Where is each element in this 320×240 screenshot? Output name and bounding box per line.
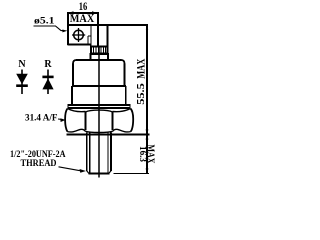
hex outer arc right (131, 109, 134, 132)
arrowheads (60, 11, 148, 173)
post inner line (90, 25, 92, 47)
knurl band (91, 47, 108, 54)
tab left edge (67, 12, 69, 45)
diode symbol N (16, 70, 28, 95)
washer right cap (129, 104, 131, 109)
stud root left (89, 133, 91, 173)
body top edge (76, 59, 122, 61)
phi leader arrowhead (62, 30, 67, 33)
stud bottom chamfer right (109, 171, 112, 174)
svg-text:MAX: MAX (70, 11, 95, 25)
vertical dimension line (55.5 / 16.3) (146, 25, 148, 174)
hole crosshair vertical (78, 28, 80, 42)
tab notch vertical (87, 36, 89, 45)
svg-text:R: R (44, 59, 52, 70)
dimension line 16 (top) (68, 12, 99, 14)
svg-text:MAX: MAX (133, 59, 147, 79)
skirt right edge (125, 86, 127, 105)
stud outer right (110, 133, 112, 171)
hex right face bottom arc (113, 129, 131, 132)
hex mid face top arc (86, 110, 113, 112)
stud bottom chamfer left (87, 171, 90, 174)
55.5 top arrow (146, 25, 148, 30)
dim16 right arrow (92, 11, 98, 14)
tab top edge and extension to dim (68, 24, 149, 26)
thread leader line (59, 167, 81, 171)
body left edge (72, 64, 74, 87)
hex outer arc left (65, 109, 67, 132)
svg-text:55.5: 55.5 (136, 83, 147, 105)
hex right face top arc (113, 109, 131, 112)
stud outer left (86, 133, 88, 171)
tab bottom edge (68, 44, 92, 46)
16.3 bottom arrow (146, 169, 149, 174)
tab right edge (97, 12, 99, 47)
body top right corner arc (121, 60, 125, 64)
stud end extension line (114, 173, 150, 175)
svg-text:THREAD: THREAD (21, 158, 57, 168)
body top left corner arc (73, 60, 77, 64)
washer lower line (68, 107, 131, 109)
svg-text:ø5.1: ø5.1 (34, 17, 55, 27)
hole crosshair horizontal (72, 34, 85, 36)
thread leader arrowhead (80, 169, 87, 173)
hex mid face bottom arc (86, 131, 113, 132)
dim16 left arrow (68, 11, 74, 14)
AF leader line (58, 118, 63, 121)
post right line (107, 25, 109, 47)
16.3 top arrow (146, 135, 149, 140)
hex inner face line left (85, 112, 87, 131)
body bottom / skirt top line (72, 85, 126, 87)
svg-text:MAX: MAX (145, 145, 156, 165)
washer upper line (68, 104, 131, 106)
phi5.1 underline (34, 26, 65, 31)
centerline (98, 47, 100, 178)
collar (91, 54, 109, 60)
seating plane line + extension to dim (67, 134, 150, 136)
svg-text:N: N (18, 59, 26, 70)
hex left face bottom arc (67, 129, 85, 132)
tab notch top (88, 35, 92, 37)
55.5 bottom arrow (146, 130, 149, 135)
diode symbol R (42, 70, 53, 95)
svg-text:31.4 A/F: 31.4 A/F (25, 113, 58, 123)
washer left cap (67, 104, 69, 109)
AF leader arrowhead (60, 118, 66, 122)
body right edge (124, 64, 126, 87)
hex inner face line right (112, 112, 114, 131)
stud end face (89, 173, 110, 175)
skirt left edge (71, 86, 73, 105)
hex left face top arc (68, 109, 86, 112)
hole circle (74, 30, 84, 40)
stud root right (107, 133, 109, 173)
